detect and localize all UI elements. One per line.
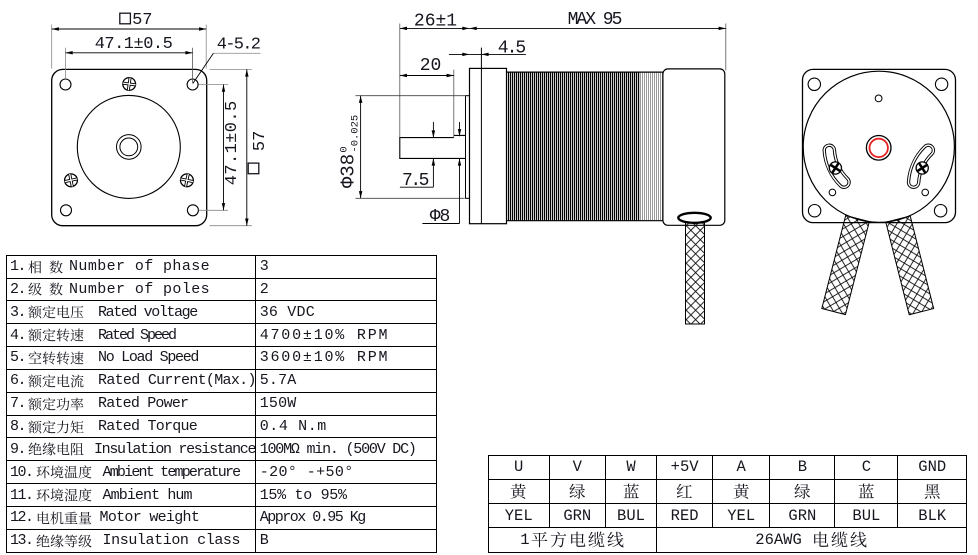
svg-text:47.1±0.5: 47.1±0.5 bbox=[95, 35, 173, 54]
rear view: right arc slot bbox=[914, 150, 929, 182]
dimension 47.1 vertical right bbox=[199, 84, 229, 86]
front view: 4 corner mounting holes bbox=[60, 79, 71, 90]
dimension phi38 with tolerance bbox=[356, 95, 466, 97]
svg-text:57: 57 bbox=[251, 131, 270, 151]
svg-text:7.5: 7.5 bbox=[402, 171, 429, 191]
dimension 7.5 shaft flat bbox=[432, 122, 434, 131]
rear view: corner holes bbox=[808, 78, 820, 90]
svg-text:47.1±0.5: 47.1±0.5 bbox=[223, 100, 242, 185]
svg-text:-0.025: -0.025 bbox=[349, 115, 361, 153]
svg-text:Φ38: Φ38 bbox=[337, 154, 359, 188]
dimension square-57 top bbox=[51, 25, 53, 69]
rear view: slot screws bbox=[827, 160, 844, 177]
dimension 47.1 horizontal bbox=[65, 48, 67, 79]
dimension 20 shaft flat length bbox=[453, 70, 455, 138]
side view: pilot boss phi38 bbox=[466, 96, 470, 199]
rear view: left arc slot bbox=[829, 150, 844, 182]
front view: shaft circles bbox=[117, 135, 142, 160]
rear view: cables (V-shape, cross-hatched) bbox=[822, 216, 870, 315]
rear view: center shaft hole with red circle bbox=[866, 136, 891, 161]
rear view: top small hole bbox=[875, 95, 882, 102]
svg-text:57: 57 bbox=[132, 11, 152, 30]
front view: motor body circle bbox=[77, 95, 180, 198]
front view: phillips screws bbox=[122, 77, 136, 91]
rear view: body circle bbox=[803, 71, 954, 222]
side view: flange plate joint line bbox=[480, 48, 482, 224]
dimension 4.5 flange thickness bbox=[449, 53, 526, 55]
side view: cable grommet bbox=[678, 213, 710, 223]
dimension square-57 vertical right bbox=[210, 68, 252, 70]
rear view: small holes bbox=[829, 189, 836, 196]
dimension MAX 95 bbox=[725, 24, 727, 71]
svg-text:MAX 95: MAX 95 bbox=[568, 10, 622, 30]
svg-text:4-5.2: 4-5.2 bbox=[217, 36, 260, 55]
front view: mounting flange bbox=[52, 69, 207, 225]
svg-text:Φ8: Φ8 bbox=[430, 207, 450, 227]
side view: shaft with flat bbox=[400, 135, 466, 158]
side view: rear end cap bbox=[663, 69, 725, 225]
side view: cable bbox=[686, 222, 705, 324]
svg-text:20: 20 bbox=[420, 56, 442, 76]
dimension phi8 shaft bbox=[459, 122, 461, 136]
side view: front end bell bbox=[470, 68, 507, 223]
svg-text:4.5: 4.5 bbox=[498, 38, 526, 58]
dimension 26±1 bbox=[399, 24, 401, 138]
svg-text:26±1: 26±1 bbox=[414, 12, 457, 32]
side view: finned stator section bbox=[507, 72, 641, 222]
rear view: flange bbox=[803, 69, 956, 222]
